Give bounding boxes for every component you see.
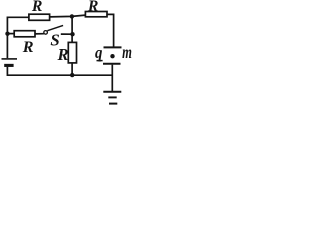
svg-text:m: m bbox=[122, 42, 132, 62]
svg-text:R: R bbox=[22, 38, 34, 56]
svg-text:R: R bbox=[31, 0, 43, 15]
svg-text:S: S bbox=[50, 30, 59, 49]
svg-text:q: q bbox=[95, 43, 102, 62]
svg-text:R: R bbox=[87, 0, 99, 15]
